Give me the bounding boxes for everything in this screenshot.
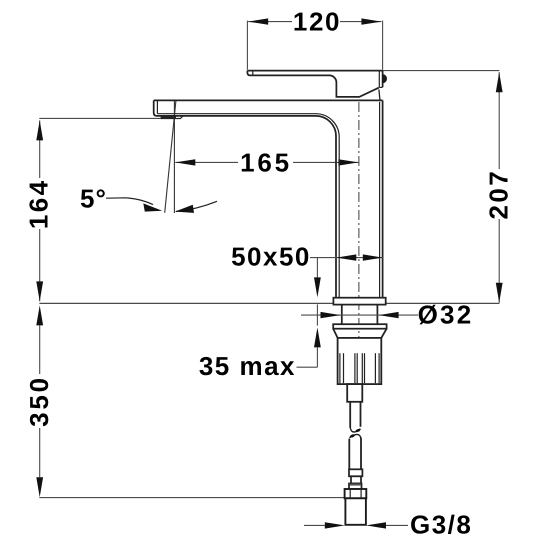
flange-to-nut trapezoid right <box>381 329 386 338</box>
angle 5 degrees right arrowhead <box>175 205 194 213</box>
supply hose connector block <box>347 384 362 402</box>
handle pivot dot <box>382 74 387 83</box>
hose end ring dark band <box>350 484 362 486</box>
dimension 120 extension lines <box>247 21 382 70</box>
dimension 207 line <box>498 72 500 303</box>
35 max leader elbow <box>297 366 318 368</box>
hose end hex nut <box>345 489 367 498</box>
svg-text:350: 350 <box>24 375 54 427</box>
35 max leader shaft <box>316 347 318 367</box>
angle 5 degrees leader arc left <box>106 198 153 205</box>
svg-text:35 max: 35 max <box>199 351 296 381</box>
dimension G3/8 left line <box>304 524 325 526</box>
svg-text:5°: 5° <box>80 184 107 214</box>
dimension 164 line <box>39 120 41 301</box>
hose break squiggle bottom <box>349 434 361 438</box>
35 max leader vertical thin line <box>316 304 318 325</box>
svg-text:50x50: 50x50 <box>231 242 311 272</box>
faucet handle top line <box>247 70 382 72</box>
50x50 drop arrow <box>314 277 321 297</box>
countertop reference line <box>39 302 499 304</box>
mounting flange <box>333 324 386 329</box>
dimension G3/8 left arrow <box>325 522 345 528</box>
dimension 350 top arrow <box>36 305 43 325</box>
svg-text:165: 165 <box>240 147 292 177</box>
shank left edge <box>341 305 343 325</box>
water stream vertical line <box>173 101 175 213</box>
handle right face outer <box>382 71 384 88</box>
spout tip outline <box>154 100 157 116</box>
aerator outline <box>161 116 183 119</box>
dimension 165 arrows <box>175 159 358 165</box>
spout underside outer with fillet <box>157 116 336 298</box>
dimension 165 line <box>175 161 358 163</box>
hose end step <box>349 469 362 476</box>
hose upper segment <box>350 402 360 428</box>
G3/8 threaded tube <box>345 498 366 525</box>
water stream slanted line (5 deg) <box>165 101 176 213</box>
body right edge inner <box>379 102 381 298</box>
hose break blob top <box>355 428 361 433</box>
svg-text:164: 164 <box>24 179 54 230</box>
dimension 50x50 leader and line <box>310 257 383 259</box>
dimension 120 arrows <box>248 18 381 24</box>
body centerline (dash-dot) <box>358 102 360 397</box>
aerator dark slot <box>161 116 176 118</box>
angle 5 degrees left arrowhead <box>143 203 162 211</box>
dimension 207 arrows <box>496 72 503 303</box>
dimension 120 line <box>248 21 381 23</box>
hose end ring <box>349 484 362 490</box>
svg-text:120: 120 <box>293 7 341 37</box>
dimension G3/8 right line <box>386 524 408 526</box>
body right edge outer <box>382 100 384 297</box>
hex nut facet left <box>349 489 351 498</box>
lever left end cap <box>252 71 254 76</box>
50x50 drop leader line <box>316 258 318 278</box>
hose bottom reference line <box>39 497 345 499</box>
dimension 164 extension line <box>39 117 161 119</box>
handle to body connector line <box>379 89 380 100</box>
dimension 350 bottom arrow <box>36 477 43 497</box>
dimension 50x50 arrows <box>336 254 383 260</box>
hex nut facet right <box>360 489 362 498</box>
flange-to-nut trapezoid left <box>333 329 337 338</box>
dimension 350 line <box>39 325 41 477</box>
mounting nut outline <box>338 338 382 384</box>
svg-text:Ø32: Ø32 <box>418 300 474 330</box>
hose end narrow ring <box>351 476 361 483</box>
dimension 164 arrows <box>36 120 43 301</box>
shank right edge <box>376 305 378 325</box>
spout underside inner with fillet <box>157 114 339 298</box>
dimension diameter 32 line <box>301 314 418 316</box>
35 max up arrow <box>314 327 321 347</box>
handle right face bottom tick <box>379 86 382 88</box>
handle right face inner <box>378 71 380 88</box>
spout tip end cap <box>156 100 158 113</box>
dimension G3/8 right arrow <box>366 522 386 528</box>
hose break blob bottom <box>349 434 355 439</box>
faucet lever outline <box>247 71 378 97</box>
hose break squiggle top <box>350 427 360 432</box>
svg-text:207: 207 <box>484 169 514 220</box>
spout top line <box>154 99 383 101</box>
extension line top (207 reference) <box>383 70 500 72</box>
angle 5 degrees arc right <box>176 201 217 211</box>
dimension diameter 32 arrows <box>321 312 399 318</box>
mounting nut knurl ribs <box>340 353 379 383</box>
base plate <box>333 298 385 305</box>
hose lower segment <box>349 438 361 470</box>
svg-text:G3/8: G3/8 <box>410 510 472 540</box>
